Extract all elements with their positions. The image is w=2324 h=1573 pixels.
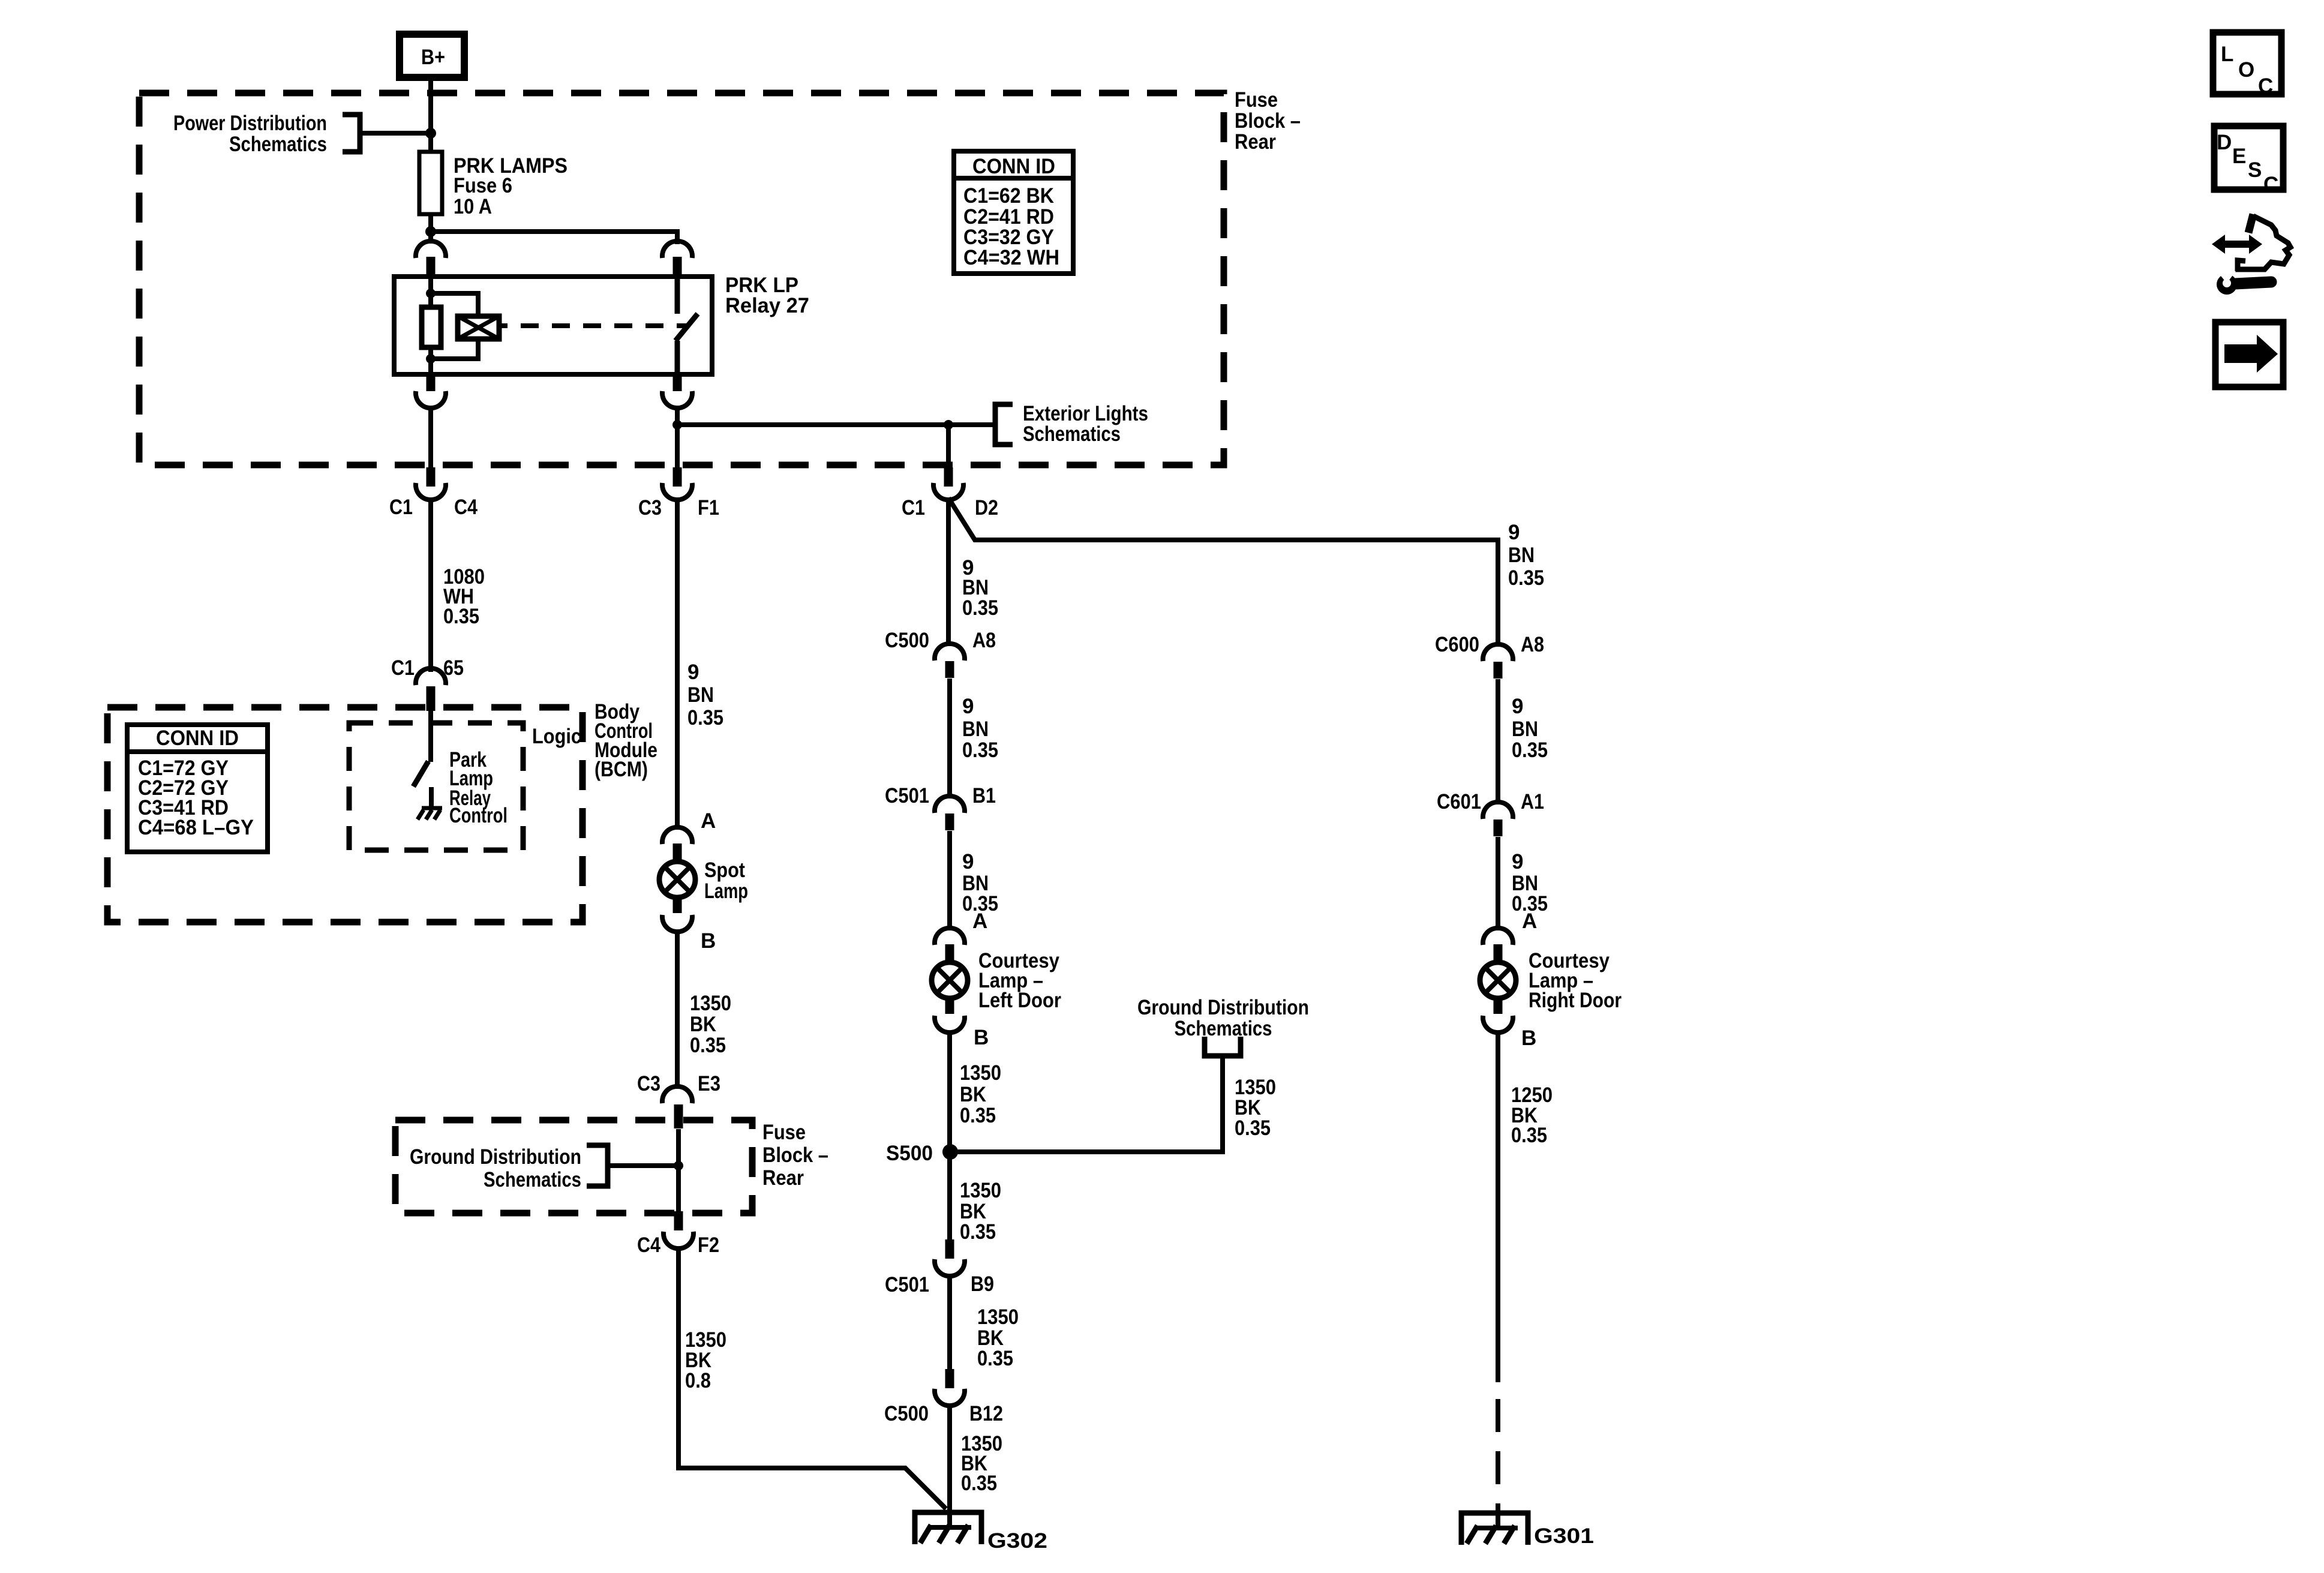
wire 9 BN relay output to spot lamp [675, 499, 680, 830]
CONN ID table (fuse block) [954, 151, 1073, 274]
svg-text:BN: BN [962, 718, 989, 741]
relay coil pin connector (top left) [416, 241, 446, 277]
svg-text:BK: BK [690, 1013, 716, 1036]
svg-text:B1: B1 [972, 784, 996, 807]
svg-text:G302: G302 [987, 1529, 1047, 1553]
fuse block rear dashed outline [139, 93, 1224, 465]
svg-text:Ground Distribution: Ground Distribution [1137, 996, 1309, 1019]
svg-text:9: 9 [962, 695, 974, 718]
park lamp relay control switch [413, 761, 428, 786]
wire bracket to ground bus [608, 1163, 678, 1168]
spot lamp [659, 827, 748, 932]
wire C501 to left door lamp [947, 831, 952, 930]
splice S500 [886, 1142, 958, 1165]
svg-text:G301: G301 [1534, 1524, 1594, 1548]
connector C500 pin B12 [884, 1369, 1003, 1425]
svg-text:1350: 1350 [960, 1179, 1001, 1202]
svg-text:0.35: 0.35 [690, 1034, 726, 1057]
internal ground symbol [418, 808, 442, 819]
svg-text:C4=68 L–GY: C4=68 L–GY [138, 816, 254, 839]
node: relay output branch [672, 420, 682, 430]
label Park Lamp Relay Control [449, 748, 508, 827]
connector C500 pin A8 (left) [885, 629, 996, 678]
svg-text:Rear: Rear [762, 1166, 804, 1190]
label Fuse Block - Rear [1235, 88, 1301, 154]
wire label 9 BN 0.35 (to lamp A) [962, 850, 998, 915]
connector C4/F2 (fuse block to harness) [637, 1211, 719, 1257]
off-page bracket: Power Distribution Schematics [173, 112, 360, 156]
svg-text:C501: C501 [885, 1273, 929, 1296]
wire bracket to B+ feed [360, 131, 431, 136]
svg-text:0.35: 0.35 [977, 1347, 1013, 1370]
wire through fuse block ground bus [676, 1129, 681, 1211]
wire 1250 BK right lamp down [1496, 1031, 1500, 1382]
svg-text:S500: S500 [886, 1142, 933, 1165]
wire label 9 BN 0.35 (D2 to C500) [962, 556, 998, 620]
svg-text:1350: 1350 [960, 1061, 1001, 1085]
svg-text:CONN ID: CONN ID [156, 727, 239, 750]
wire label 1250 BK 0.35 [1511, 1083, 1553, 1147]
node: park lamp feed branch [944, 420, 953, 430]
svg-text:C500: C500 [885, 629, 929, 652]
svg-text:1350: 1350 [977, 1305, 1019, 1329]
svg-text:B12: B12 [969, 1402, 1003, 1425]
svg-text:B: B [1521, 1026, 1536, 1050]
off-page bracket: Exterior Lights Schematics [995, 402, 1148, 446]
svg-text:C501: C501 [885, 784, 929, 807]
svg-text:C1: C1 [389, 496, 413, 519]
off-page bracket: Ground Distribution Schematics (left) [410, 1145, 608, 1191]
svg-text:9: 9 [687, 661, 699, 684]
svg-text:B+: B+ [421, 46, 445, 69]
courtesy lamp left door [932, 928, 1061, 1032]
wire B9 to B12 [947, 1275, 952, 1370]
svg-text:0.35: 0.35 [960, 1220, 996, 1244]
svg-text:Schematics: Schematics [1023, 422, 1121, 446]
svg-text:BN: BN [1512, 718, 1538, 741]
svg-text:F1: F1 [698, 496, 719, 520]
svg-text:Fuse: Fuse [762, 1121, 806, 1144]
connector C601 pin A1 (right) [1437, 790, 1544, 836]
label Body Control Module (BCM) [594, 700, 657, 781]
wire label 1350 BK 0.35 (B9 to B12) [977, 1305, 1019, 1370]
node: coil bottom junction [426, 354, 436, 364]
svg-text:E: E [2232, 145, 2246, 168]
svg-text:0.8: 0.8 [685, 1369, 711, 1392]
relay suppression resistor [422, 307, 441, 347]
svg-text:9: 9 [962, 850, 974, 873]
node: coil top junction [426, 289, 436, 298]
svg-text:C: C [2263, 173, 2278, 196]
ground G301 [1461, 1506, 1594, 1548]
wire branch down to C1/D2 [946, 425, 951, 468]
internal ground stub [429, 787, 434, 809]
svg-text:C601: C601 [1437, 790, 1481, 813]
svg-text:0.35: 0.35 [962, 739, 998, 762]
wire label 1350 BK 0.35 (B12 to G302) [961, 1432, 1002, 1495]
svg-text:Block –: Block – [762, 1143, 828, 1167]
svg-text:C4: C4 [454, 496, 478, 519]
svg-text:9: 9 [1512, 695, 1523, 718]
node: fuse output junction [425, 226, 436, 237]
svg-text:B9: B9 [971, 1272, 994, 1296]
connector C501 pin B1 (left) [885, 784, 996, 830]
relay output pin connector (bottom right) [662, 374, 692, 408]
svg-text:A: A [701, 809, 716, 833]
relay K27 PRK LP box [394, 277, 712, 374]
wire label 1350 BK 0.8 [685, 1328, 726, 1392]
wire C1/D2 branch to right door [948, 498, 1498, 647]
svg-text:BK: BK [960, 1083, 986, 1106]
svg-text:0.35: 0.35 [960, 1104, 996, 1127]
svg-text:C600: C600 [1435, 633, 1479, 656]
wire 1350 BK spot lamp to fuse block [675, 930, 680, 1089]
svg-text:F2: F2 [698, 1233, 719, 1257]
connector C1/D2 (fuse block to harness) [902, 467, 998, 520]
svg-text:S: S [2248, 158, 2262, 182]
svg-text:Logic: Logic [532, 725, 581, 748]
connector C1 pin 65 (BCM) [391, 656, 464, 711]
svg-text:C500: C500 [884, 1402, 929, 1425]
wire label 9 BN 0.35 (C500 to C501) [962, 695, 998, 762]
icon: forward navigation button [2215, 322, 2283, 387]
svg-text:Ground Distribution: Ground Distribution [410, 1145, 581, 1169]
wire label 9 BN 0.35 (D2 branch to C600) [1508, 521, 1544, 590]
ground G302 [915, 1404, 1047, 1553]
svg-text:D2: D2 [975, 496, 998, 520]
svg-text:C1: C1 [902, 496, 925, 520]
relay coil feed wire [428, 277, 433, 374]
fuse block rear (ground side) dashed outline [395, 1120, 752, 1213]
fuse F6 PRK LAMPS 10A [419, 152, 568, 218]
body control module dashed outline [107, 707, 582, 922]
svg-text:BN: BN [1508, 544, 1535, 567]
connector C1/C4 (fuse block to harness) [389, 467, 478, 519]
label PRK LP Relay 27 [725, 274, 809, 317]
svg-text:BN: BN [687, 683, 714, 707]
connector C3/F1 (fuse block to harness) [638, 467, 719, 520]
svg-text:9: 9 [1512, 850, 1523, 873]
wire label 1350 BK 0.35 [690, 992, 731, 1057]
wire fuse output to relay pins [431, 232, 677, 244]
svg-text:A: A [972, 909, 987, 933]
icon: DESC button [2214, 126, 2283, 196]
courtesy lamp right door [1480, 928, 1622, 1032]
relay switch pin connector (top right) [662, 241, 692, 277]
svg-text:(BCM): (BCM) [594, 758, 648, 781]
icon: component view with wrench [2212, 214, 2290, 295]
svg-text:0.35: 0.35 [1511, 1124, 1547, 1147]
svg-text:C3: C3 [638, 496, 662, 520]
svg-text:O: O [2238, 58, 2254, 82]
wire 1350 BK to G302 [678, 1247, 946, 1509]
connector C501 pin B9 [885, 1239, 994, 1296]
wire coil parallel loop [431, 293, 478, 359]
svg-text:Relay 27: Relay 27 [725, 294, 809, 317]
svg-text:0.35: 0.35 [1235, 1116, 1271, 1140]
svg-text:Fuse 6: Fuse 6 [454, 174, 512, 197]
svg-text:CONN ID: CONN ID [972, 155, 1055, 178]
wire label 1350 BK 0.35 (lamp to S500) [960, 1061, 1001, 1127]
wire C500 to C501 [947, 679, 952, 798]
svg-text:0.35: 0.35 [962, 596, 998, 620]
svg-text:Lamp: Lamp [704, 879, 748, 903]
wire label 9 BN 0.35 (to right lamp A) [1512, 850, 1548, 915]
svg-text:Right Door: Right Door [1529, 989, 1622, 1012]
wire B+ to fuse [428, 77, 433, 244]
svg-text:C4=32 WH: C4=32 WH [963, 246, 1059, 269]
svg-text:C1=62 BK: C1=62 BK [963, 184, 1054, 208]
svg-text:Schematics: Schematics [229, 133, 327, 156]
svg-text:A: A [1522, 909, 1537, 933]
battery feed terminal B+ [400, 34, 464, 77]
wire C600 to C601 [1496, 679, 1500, 804]
label Fuse Block - Rear (ground side) [762, 1121, 828, 1190]
svg-text:0.35: 0.35 [1512, 739, 1548, 762]
svg-text:0.35: 0.35 [961, 1472, 997, 1495]
svg-text:9: 9 [1508, 521, 1520, 544]
wire 1080 WH to BCM [428, 499, 433, 672]
off-page fork: Ground Distribution Schematics [1137, 996, 1309, 1056]
svg-text:Fuse: Fuse [1235, 88, 1278, 112]
svg-text:C: C [2258, 74, 2273, 98]
relay coil winding symbol (box with X) [458, 316, 499, 339]
svg-text:Block –: Block – [1235, 109, 1301, 133]
wire lamp B through S500 to C501 [947, 1031, 952, 1241]
svg-text:Schematics: Schematics [1175, 1017, 1272, 1040]
connector C3/E3 (harness to fuse block) [637, 1072, 720, 1128]
wire C1/D2 down to C500 [946, 498, 951, 646]
svg-text:10 A: 10 A [454, 195, 492, 218]
relay coil ground pin connector (bottom left) [416, 374, 446, 408]
svg-text:C4: C4 [637, 1233, 660, 1257]
wire S500 to ground distribution fork [950, 1056, 1223, 1152]
svg-text:Power Distribution: Power Distribution [173, 112, 327, 135]
svg-text:Rear: Rear [1235, 130, 1276, 154]
relay switch contact [675, 277, 698, 374]
wire label 1350 BK 0.35 (S500 to B9) [960, 1179, 1001, 1244]
svg-text:0.35: 0.35 [687, 706, 723, 730]
svg-text:Control: Control [449, 804, 508, 827]
node: power distribution tap [425, 128, 436, 139]
wire label 9 BN 0.35 [687, 661, 723, 730]
svg-text:A8: A8 [972, 629, 996, 652]
wire label 1350 BK 0.35 (fork drop) [1235, 1076, 1276, 1140]
svg-text:Spot: Spot [704, 858, 745, 882]
CONN ID table (BCM) [127, 725, 268, 852]
svg-text:C3: C3 [637, 1072, 660, 1095]
wire C601 to right door lamp [1496, 837, 1500, 930]
svg-text:A1: A1 [1521, 790, 1544, 813]
svg-text:Schematics: Schematics [484, 1168, 581, 1191]
svg-text:C1: C1 [391, 656, 415, 680]
icon: LOC button [2213, 32, 2281, 98]
svg-text:A8: A8 [1521, 633, 1544, 656]
wire label 1080 WH 0.35 [443, 565, 485, 628]
svg-text:B: B [974, 1026, 989, 1049]
relay actuation dashed link [499, 323, 689, 328]
svg-text:0.35: 0.35 [1508, 566, 1544, 590]
wire relay output down [675, 407, 680, 468]
connector C600 pin A8 (right) [1435, 633, 1544, 679]
wire relay output to exterior lights bracket [677, 422, 995, 427]
svg-text:Left Door: Left Door [978, 989, 1061, 1012]
dashed wire to G301 [1496, 1399, 1500, 1509]
wire relay coil ground to C1/C4 [428, 407, 433, 468]
svg-text:E3: E3 [698, 1072, 720, 1095]
node: ground bus tap [674, 1161, 683, 1170]
svg-text:L: L [2221, 43, 2233, 66]
logic block dashed outline [349, 723, 523, 850]
svg-text:B: B [701, 929, 716, 953]
svg-text:D: D [2217, 131, 2232, 154]
wire into logic switch [428, 711, 433, 762]
svg-text:1350: 1350 [690, 992, 731, 1015]
svg-text:0.35: 0.35 [443, 605, 479, 628]
wire label 9 BN 0.35 (C600 to C601) [1512, 695, 1548, 762]
